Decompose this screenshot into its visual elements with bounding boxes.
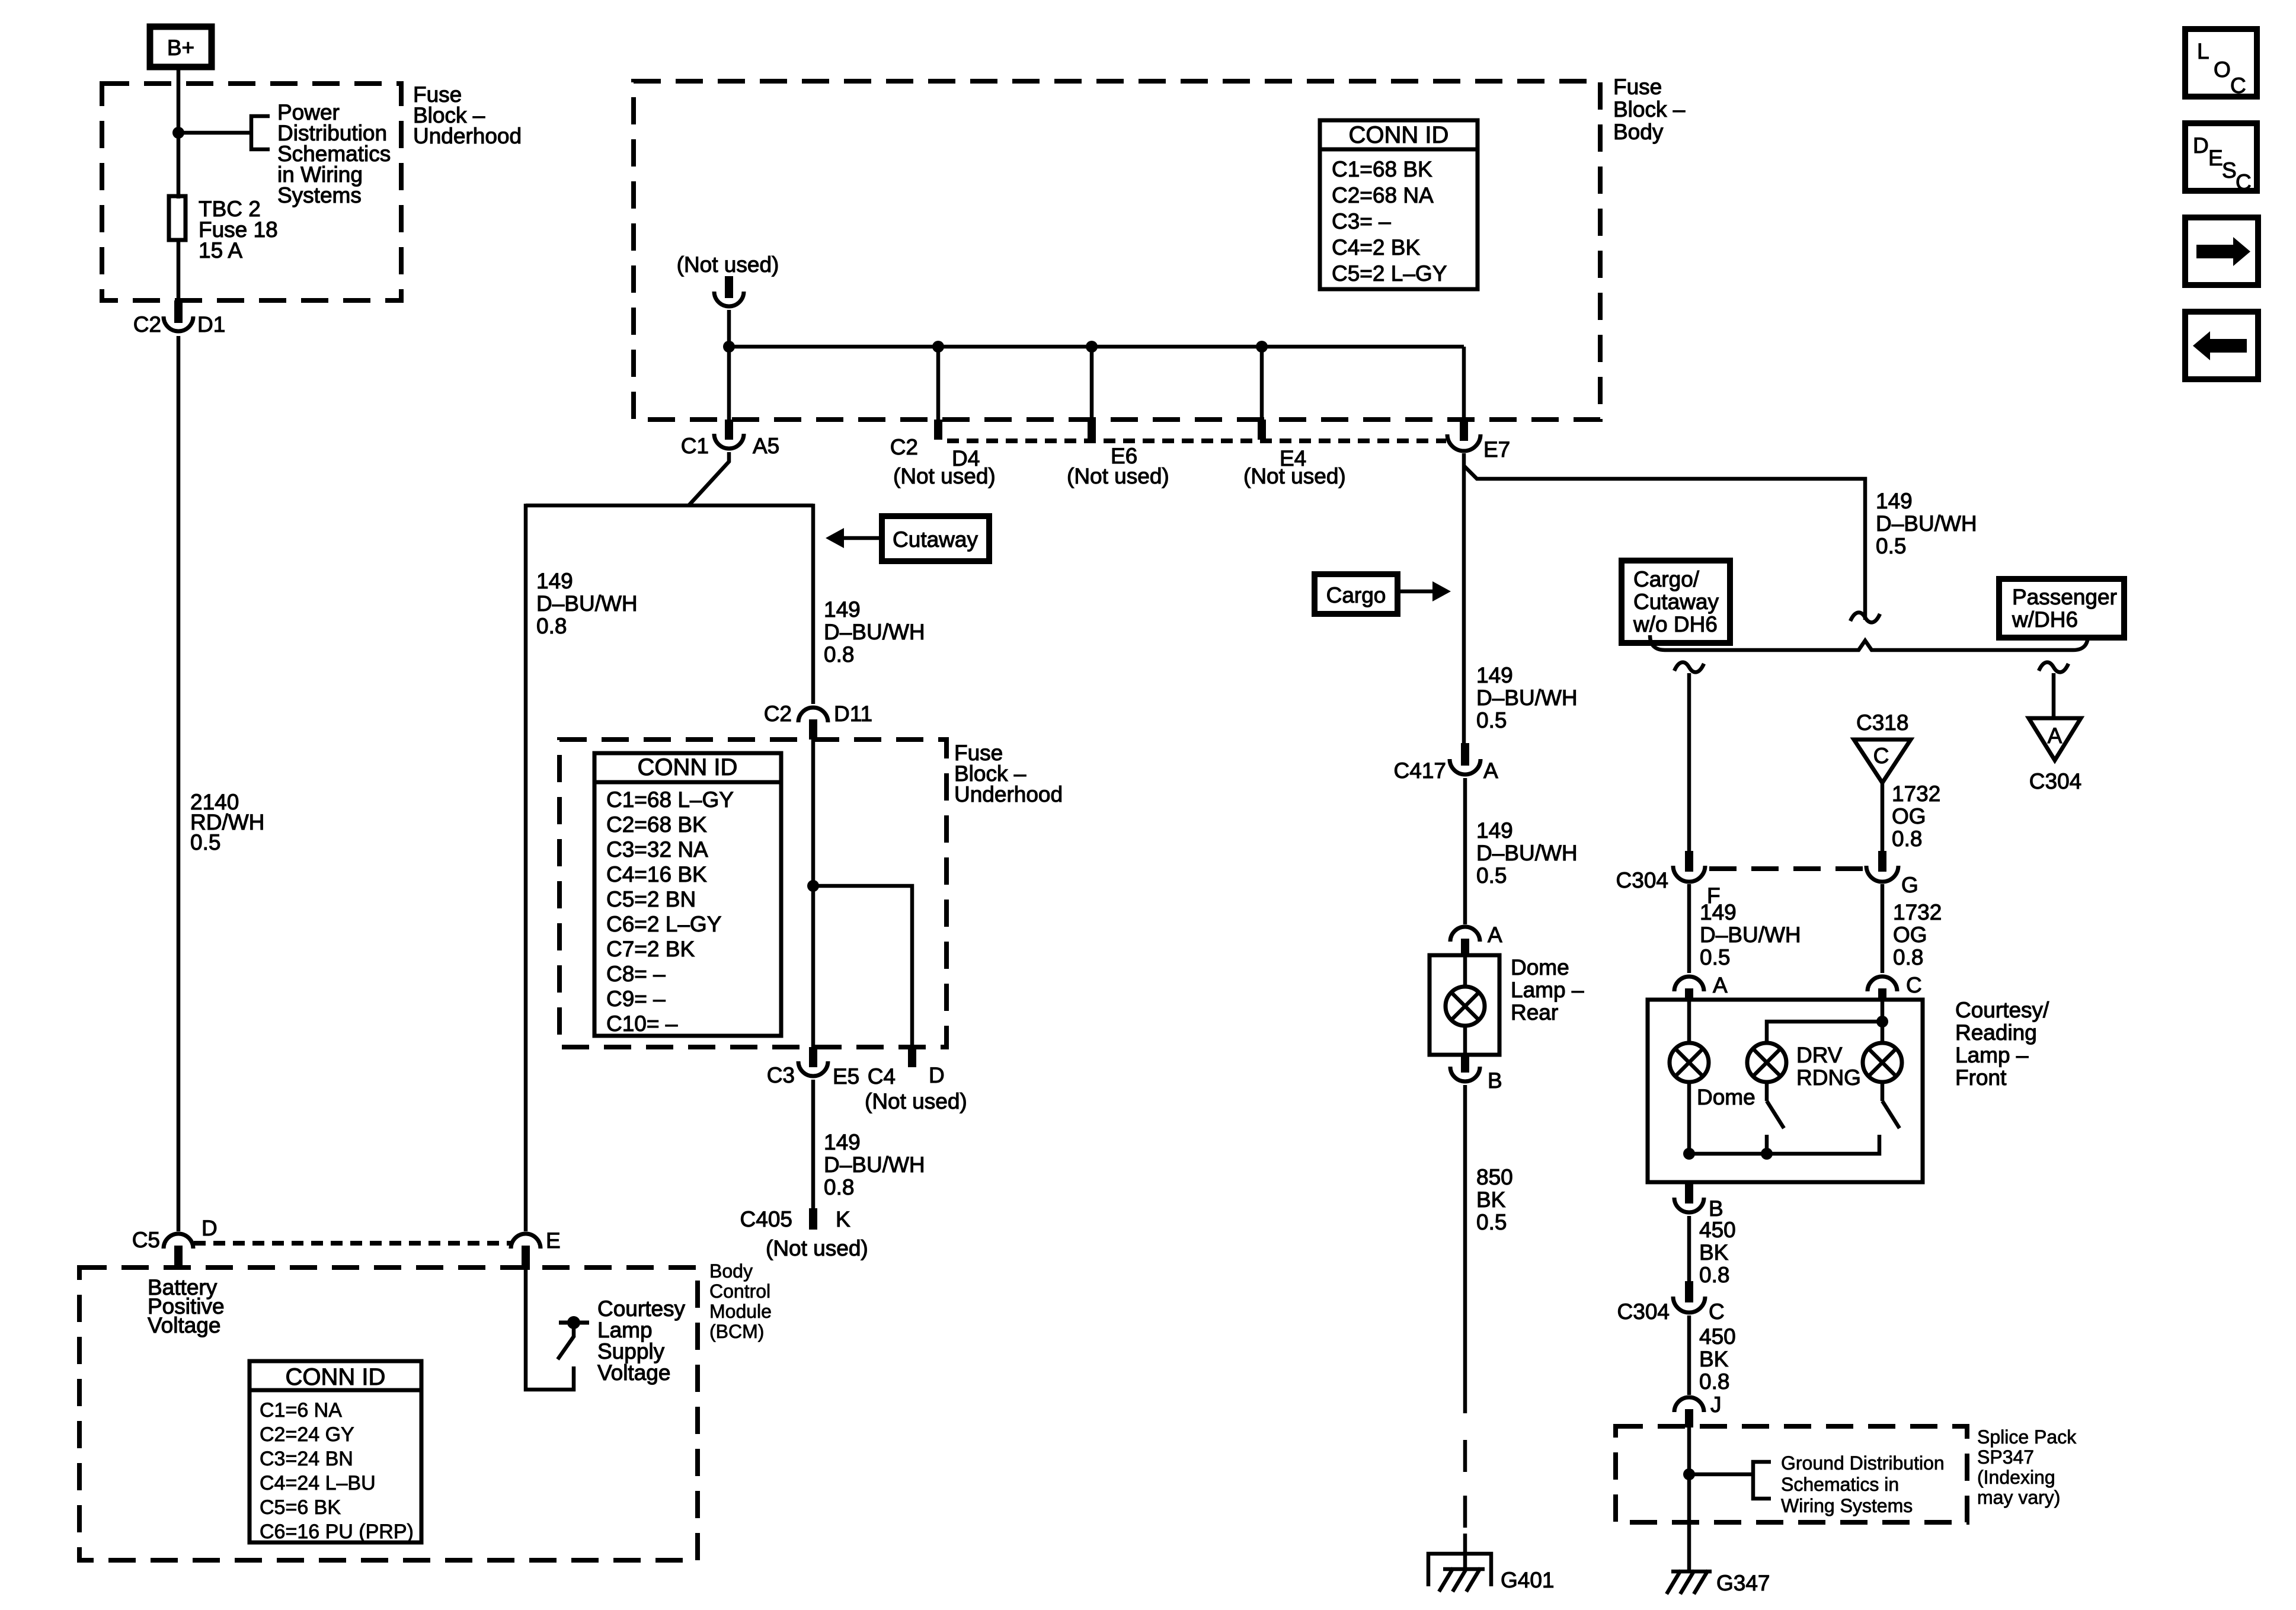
Cutaway tag box with arrow [826, 516, 989, 561]
svg-text:C2=68 BK: C2=68 BK [606, 812, 707, 837]
svg-text:(Not used): (Not used) [893, 464, 996, 488]
svg-text:D–BU/WH: D–BU/WH [824, 620, 925, 644]
svg-text:C2=68 NA: C2=68 NA [1332, 183, 1434, 207]
wire break squiggle above brace [1850, 613, 1880, 623]
svg-text:149: 149 [824, 597, 861, 622]
svg-text:may vary): may vary) [1977, 1487, 2060, 1508]
svg-text:(Not used): (Not used) [1067, 464, 1169, 488]
svg-text:B+: B+ [167, 36, 194, 60]
svg-text:C: C [2236, 170, 2252, 194]
wire branch to DRV RDNG lamp [1767, 1022, 1882, 1044]
wire B to C304/C [1687, 1216, 1691, 1282]
dashed connector row C304 F to G [1709, 866, 1863, 871]
svg-text:C8= –: C8= – [606, 962, 666, 986]
svg-text:C: C [2230, 73, 2246, 98]
svg-text:OG: OG [1892, 804, 1926, 828]
wire bus drop D4 [936, 347, 941, 421]
lamp dome front [1670, 1043, 1709, 1082]
dome lamp rear box [1430, 955, 1499, 1055]
svg-text:0.5: 0.5 [190, 830, 220, 854]
connector C4 pin D (not used) [865, 1047, 967, 1113]
svg-text:J: J [1710, 1393, 1722, 1417]
CONN ID table (BCM) [250, 1361, 421, 1543]
fuse block underhood dashed box (middle) [559, 740, 946, 1047]
wire 850 BK to G401 [1463, 1085, 1467, 1413]
svg-text:Courtesy: Courtesy [597, 1297, 686, 1321]
svg-text:0.8: 0.8 [536, 614, 567, 638]
wire dome lamp to ground bus [1687, 1082, 1691, 1154]
label 149 D-BU/WH 0.8 (to C405) [824, 1130, 925, 1199]
svg-text:w/DH6: w/DH6 [2012, 607, 2078, 632]
label 149 D-BU/WH 0.8 (middle branch) [824, 597, 925, 667]
svg-text:A: A [1483, 758, 1498, 783]
svg-text:(Not used): (Not used) [677, 252, 779, 277]
wire left branch to C304/F [1687, 673, 1691, 852]
reference bracket [251, 116, 270, 149]
svg-text:D–BU/WH: D–BU/WH [1476, 841, 1578, 865]
svg-text:0.8: 0.8 [824, 1175, 854, 1199]
Cargo tag box with arrow [1315, 574, 1451, 614]
connector C5 pin D (BCM) [132, 1216, 218, 1270]
svg-text:C304: C304 [2029, 769, 2081, 793]
svg-text:450: 450 [1699, 1218, 1736, 1242]
splice pack SP347 dashed box [1616, 1426, 1967, 1522]
junction dot inside underhood box [807, 880, 819, 892]
svg-text:C1=68 L–GY: C1=68 L–GY [606, 788, 734, 812]
svg-text:BK: BK [1699, 1240, 1729, 1265]
wire E7 down to C417 [1462, 453, 1466, 745]
label Body Control Module (BCM) [709, 1260, 772, 1342]
svg-text:1732: 1732 [1893, 900, 1942, 924]
svg-text:C1: C1 [681, 434, 709, 458]
label Courtesy/Reading Lamp - Front [1955, 998, 2049, 1090]
wire bus to E7 [1462, 347, 1466, 423]
connector pin E6 (not used) [1067, 420, 1169, 488]
svg-text:Body: Body [709, 1260, 753, 1282]
label 850 BK 0.5 [1476, 1165, 1513, 1234]
svg-text:Cutaway: Cutaway [1633, 590, 1719, 614]
svg-text:0.5: 0.5 [1876, 534, 1906, 558]
svg-text:SP347: SP347 [1977, 1446, 2034, 1468]
bus wire inside fuse block body [729, 345, 1464, 349]
switch right lamp [1882, 1082, 1900, 1128]
svg-text:Reading: Reading [1955, 1020, 2037, 1045]
lamp dome rear [1446, 955, 1485, 1055]
wire branch to C4/D [813, 886, 912, 1049]
connector C318 pin C (triangle) [1854, 710, 1911, 783]
svg-text:149: 149 [1876, 489, 1913, 513]
svg-text:CONN ID: CONN ID [286, 1364, 386, 1390]
connector pin G [1866, 851, 1918, 897]
svg-text:E5: E5 [833, 1064, 859, 1089]
svg-text:C2: C2 [764, 702, 792, 726]
svg-text:RDNG: RDNG [1796, 1065, 1861, 1090]
svg-text:(Indexing: (Indexing [1977, 1467, 2055, 1488]
connector pin J (splice pack) [1674, 1393, 1722, 1427]
brace split [1650, 635, 2088, 650]
svg-text:E: E [546, 1228, 561, 1253]
wire to ground reference bracket [1689, 1473, 1751, 1477]
lamp front right [1863, 1043, 1902, 1082]
svg-text:C: C [1906, 973, 1922, 997]
connector C2 pin D11 [764, 702, 872, 740]
svg-text:C4: C4 [868, 1064, 896, 1089]
svg-text:(BCM): (BCM) [709, 1321, 764, 1342]
svg-text:Block –: Block – [1613, 97, 1686, 121]
dotted connector row C5/D to E [194, 1241, 511, 1246]
svg-text:C4=16 BK: C4=16 BK [606, 862, 707, 886]
connector C417 pin A [1394, 743, 1498, 783]
connector pin B (dome lamp rear) [1450, 1055, 1502, 1093]
label Ground Distribution Schematics in Wiring Systems [1781, 1452, 1945, 1516]
label Fuse Block - Body [1613, 75, 1686, 144]
svg-text:0.5: 0.5 [1476, 1210, 1507, 1234]
label Power Distribution Schematics in Wiring Systems [277, 100, 391, 207]
svg-text:0.8: 0.8 [1892, 827, 1922, 851]
svg-text:D–BU/WH: D–BU/WH [1476, 686, 1578, 710]
courtesy/reading lamp front box [1648, 1000, 1923, 1182]
wire through underhood box [811, 738, 816, 1049]
svg-text:(Not used): (Not used) [766, 1236, 868, 1260]
svg-text:C5=6 BK: C5=6 BK [260, 1496, 341, 1519]
svg-text:D: D [202, 1216, 218, 1240]
wire C to J [1687, 1315, 1691, 1395]
switch courtesy lamp supply voltage [558, 1316, 589, 1359]
svg-text:(Not used): (Not used) [1243, 464, 1346, 488]
svg-text:C3=24 BN: C3=24 BN [260, 1448, 353, 1470]
svg-text:D: D [929, 1063, 945, 1087]
svg-text:C9= –: C9= – [606, 987, 666, 1011]
label 149 D-BU/WH 0.5 (lamp front) [1700, 900, 1801, 969]
junction dot [172, 127, 184, 139]
svg-text:850: 850 [1476, 1165, 1513, 1189]
svg-text:Cargo/: Cargo/ [1633, 567, 1700, 591]
svg-text:Schematics in: Schematics in [1781, 1474, 1899, 1495]
svg-text:C2=24 GY: C2=24 GY [260, 1423, 354, 1446]
wire bus drop C1/A5 [727, 347, 731, 421]
wire from not-used connector to bus [727, 310, 731, 347]
wire C1/A5 split [689, 452, 729, 505]
wire A into dome lamp [1687, 1000, 1691, 1044]
reference bracket (ground distribution) [1753, 1462, 1771, 1499]
lamp DRV RDNG [1747, 1043, 1786, 1082]
ground bus inside lamp box [1689, 1135, 1879, 1154]
connector pin C (lamp front) [1868, 973, 1922, 1001]
ground G401 [1428, 1554, 1555, 1592]
svg-text:Underhood: Underhood [954, 782, 1063, 806]
svg-text:149: 149 [536, 569, 573, 593]
svg-text:Front: Front [1955, 1065, 2007, 1090]
svg-text:B: B [1488, 1068, 1502, 1093]
svg-text:0.5: 0.5 [1700, 945, 1730, 969]
svg-text:Dome: Dome [1511, 955, 1569, 980]
svg-text:S: S [2222, 158, 2237, 183]
CONN ID table (fuse block body) [1320, 120, 1478, 289]
svg-text:E: E [2208, 146, 2223, 170]
label 149 D-BU/WH 0.5 (cargo wire) [1476, 663, 1578, 732]
wire 2140 RD/WH 0.5 [177, 336, 181, 1231]
svg-text:DRV: DRV [1796, 1043, 1843, 1067]
svg-text:Passenger: Passenger [2012, 585, 2117, 609]
svg-text:C3=32 NA: C3=32 NA [606, 837, 708, 862]
svg-text:0.5: 0.5 [1476, 708, 1507, 732]
label 149 D-BU/WH 0.8 (left branch) [536, 569, 638, 638]
svg-text:C: C [1709, 1299, 1725, 1324]
fuse TBC 2 Fuse 18 15 A [169, 196, 186, 240]
wire middle branch down to C2/D11 [811, 504, 816, 704]
wire E7 branch to right [1464, 466, 1865, 620]
svg-text:L: L [2197, 39, 2209, 63]
svg-text:C1=6 NA: C1=6 NA [260, 1399, 342, 1422]
fuse block underhood box (top left) [102, 84, 401, 300]
svg-text:G: G [1901, 873, 1918, 897]
svg-text:C2: C2 [133, 312, 161, 337]
svg-text:A: A [1713, 973, 1728, 997]
wire F to lamp A [1687, 884, 1691, 973]
svg-text:0.8: 0.8 [1699, 1263, 1729, 1287]
svg-text:Lamp –: Lamp – [1511, 978, 1584, 1002]
svg-text:1732: 1732 [1892, 782, 1940, 806]
svg-text:D1: D1 [197, 312, 225, 337]
hook right branch [2039, 662, 2068, 673]
connector C1 pin A5 [681, 420, 780, 458]
svg-text:Splice Pack: Splice Pack [1977, 1426, 2077, 1448]
svg-text:D: D [2193, 133, 2209, 158]
label Dome Lamp - Rear [1511, 955, 1584, 1025]
svg-text:Control: Control [709, 1281, 770, 1302]
connector C304 pin C [1617, 1281, 1725, 1324]
label DRV RDNG [1796, 1043, 1861, 1090]
svg-text:Courtesy/: Courtesy/ [1955, 998, 2049, 1022]
connector C2 pin D4 (not used) [890, 420, 996, 488]
icon LOC box [2185, 29, 2257, 98]
svg-text:Systems: Systems [277, 183, 362, 207]
wire through splice pack to G347 [1687, 1427, 1691, 1570]
svg-text:C7=2 BK: C7=2 BK [606, 937, 695, 961]
svg-text:0.8: 0.8 [824, 642, 854, 667]
label 450 BK 0.8 (upper) [1699, 1218, 1736, 1287]
svg-text:OG: OG [1893, 923, 1927, 947]
svg-text:C5=2 BN: C5=2 BN [606, 887, 696, 911]
icon DESC box [2185, 123, 2257, 194]
svg-text:A5: A5 [753, 434, 779, 458]
svg-text:G401: G401 [1501, 1568, 1555, 1592]
connector pin E4 (not used) [1243, 420, 1346, 488]
connector C2 pin D1 [133, 300, 226, 337]
Cargo/Cutaway w/o DH6 tag box [1622, 561, 1730, 643]
svg-text:C405: C405 [740, 1207, 792, 1231]
svg-text:Cargo: Cargo [1326, 583, 1386, 607]
svg-text:C304: C304 [1617, 1299, 1670, 1324]
svg-text:D–BU/WH: D–BU/WH [1700, 923, 1801, 947]
svg-text:149: 149 [1476, 663, 1513, 687]
svg-text:K: K [836, 1207, 850, 1231]
svg-text:D–BU/WH: D–BU/WH [1876, 511, 1977, 536]
svg-text:E7: E7 [1483, 437, 1510, 462]
label Fuse Block - Underhood (middle) [954, 741, 1063, 806]
wire to reference bracket [178, 131, 251, 135]
svg-text:BK: BK [1699, 1347, 1729, 1371]
connector pin A (lamp front) [1674, 973, 1728, 1001]
wire left branch down to BCM E [524, 504, 528, 1231]
svg-text:D–BU/WH: D–BU/WH [536, 591, 638, 616]
svg-text:CONN ID: CONN ID [1349, 122, 1449, 148]
svg-text:15 A: 15 A [199, 238, 242, 263]
wire bus drop E6 [1090, 347, 1094, 421]
svg-text:G347: G347 [1716, 1571, 1770, 1595]
label Battery Positive Voltage [148, 1275, 225, 1337]
connector pin E (BCM) [511, 1228, 561, 1270]
svg-text:Voltage: Voltage [148, 1313, 220, 1337]
label Courtesy Lamp Supply Voltage [597, 1297, 686, 1385]
dotted not-used connector row [947, 438, 1446, 443]
connector C304 pin F [1616, 851, 1721, 908]
svg-text:O: O [2214, 57, 2231, 82]
fuse block body dashed box [634, 81, 1600, 420]
svg-text:D11: D11 [834, 702, 872, 726]
wire B+ to fuse [177, 67, 181, 199]
svg-text:149: 149 [1476, 818, 1513, 843]
svg-text:C6=2 L–GY: C6=2 L–GY [606, 912, 721, 936]
svg-text:Cutaway: Cutaway [893, 527, 978, 552]
connector pin A (dome lamp rear) [1450, 923, 1502, 956]
svg-text:Body: Body [1613, 120, 1664, 144]
connector C3 pin E5 [767, 1047, 860, 1089]
wire C318 to G [1881, 783, 1885, 852]
svg-text:0.8: 0.8 [1893, 945, 1923, 969]
connector pin B (lamp front) [1674, 1182, 1723, 1221]
Passenger w/DH6 tag box [1999, 579, 2124, 638]
svg-text:C: C [1873, 744, 1889, 768]
junction dot splice [1683, 1468, 1695, 1480]
svg-text:A: A [2048, 724, 2062, 748]
wire G to lamp C [1881, 884, 1885, 973]
svg-text:C2: C2 [890, 435, 918, 459]
dashed wire to G401 [1463, 1440, 1467, 1530]
svg-text:Wiring Systems: Wiring Systems [1781, 1495, 1913, 1516]
wire C3/E5 down to C405 [811, 1080, 816, 1209]
svg-text:Lamp: Lamp [597, 1318, 653, 1342]
BCM dashed box [79, 1267, 698, 1560]
svg-text:Voltage: Voltage [597, 1361, 670, 1385]
svg-text:Rear: Rear [1511, 1000, 1558, 1025]
icon arrow left box [2185, 312, 2258, 379]
svg-text:Lamp –: Lamp – [1955, 1043, 2029, 1067]
svg-text:Ground Distribution: Ground Distribution [1781, 1452, 1945, 1474]
svg-text:450: 450 [1699, 1324, 1736, 1349]
wire C417 to dome lamp rear [1463, 778, 1467, 924]
connector (Not used) top [677, 252, 779, 306]
svg-text:C4=24 L–BU: C4=24 L–BU [260, 1472, 376, 1494]
switch DRV RDNG lamp [1767, 1082, 1784, 1154]
svg-text:C4=2 BK: C4=2 BK [1332, 235, 1420, 260]
label Splice Pack SP347 [1977, 1426, 2077, 1508]
svg-text:CONN ID: CONN ID [638, 754, 738, 780]
connector pin E7 [1447, 422, 1510, 462]
label 1732 OG 0.8 (above G) [1892, 782, 1940, 851]
connector C304 pin A (triangle) [2029, 718, 2081, 793]
label Fuse Block - Underhood [413, 82, 522, 148]
hook left branch [1674, 662, 1704, 673]
connector C405 pin K (not used) [740, 1207, 868, 1260]
svg-text:(Not used): (Not used) [865, 1089, 967, 1113]
svg-text:B: B [1709, 1196, 1723, 1221]
ground G347 [1667, 1570, 1770, 1595]
svg-text:Module: Module [709, 1301, 772, 1322]
svg-text:C3: C3 [767, 1063, 795, 1087]
label 1732 OG 0.8 (lamp front) [1893, 900, 1942, 969]
svg-text:C5: C5 [132, 1228, 160, 1252]
svg-text:C1=68 BK: C1=68 BK [1332, 157, 1432, 181]
node B+ battery positive [150, 27, 212, 67]
svg-text:C5=2 L–GY: C5=2 L–GY [1332, 261, 1447, 286]
wire fuse to C2/D1 [177, 240, 181, 302]
svg-text:w/o DH6: w/o DH6 [1633, 612, 1718, 636]
svg-text:Dome: Dome [1697, 1085, 1755, 1109]
wire right branch to C304/A [2052, 673, 2056, 718]
svg-text:C304: C304 [1616, 868, 1668, 892]
svg-text:0.8: 0.8 [1699, 1369, 1729, 1394]
CONN ID table (fuse block underhood) [594, 753, 781, 1036]
svg-text:D–BU/WH: D–BU/WH [824, 1153, 925, 1177]
wire C into lamp node [1881, 1000, 1885, 1044]
label 149 D-BU/WH 0.5 (to dome lamp rear) [1476, 818, 1578, 888]
svg-text:C6=16 PU (PRP): C6=16 PU (PRP) [260, 1521, 414, 1543]
svg-text:BK: BK [1476, 1188, 1506, 1212]
wire bus drop E4 [1260, 347, 1264, 421]
label 149 D-BU/WH 0.5 (E7 right branch) [1876, 489, 1977, 558]
junction dots ground bus [1683, 1148, 1695, 1160]
svg-text:C417: C417 [1394, 758, 1446, 783]
wire horizontal split rail [526, 504, 813, 508]
junction dot C node [1876, 1016, 1888, 1028]
icon arrow right box [2185, 217, 2258, 285]
svg-text:Underhood: Underhood [413, 124, 522, 148]
wire E to switch [526, 1268, 574, 1390]
svg-text:0.5: 0.5 [1476, 863, 1507, 888]
svg-text:Supply: Supply [597, 1339, 665, 1363]
svg-text:149: 149 [1700, 900, 1737, 924]
svg-text:A: A [1488, 923, 1502, 947]
svg-text:149: 149 [824, 1130, 861, 1154]
svg-text:C318: C318 [1856, 710, 1908, 735]
svg-text:C10= –: C10= – [606, 1012, 678, 1036]
junction dots on bus [723, 341, 735, 353]
svg-text:Fuse: Fuse [1613, 75, 1662, 99]
label 450 BK 0.8 (lower) [1699, 1324, 1736, 1394]
svg-text:C3= –: C3= – [1332, 209, 1391, 233]
